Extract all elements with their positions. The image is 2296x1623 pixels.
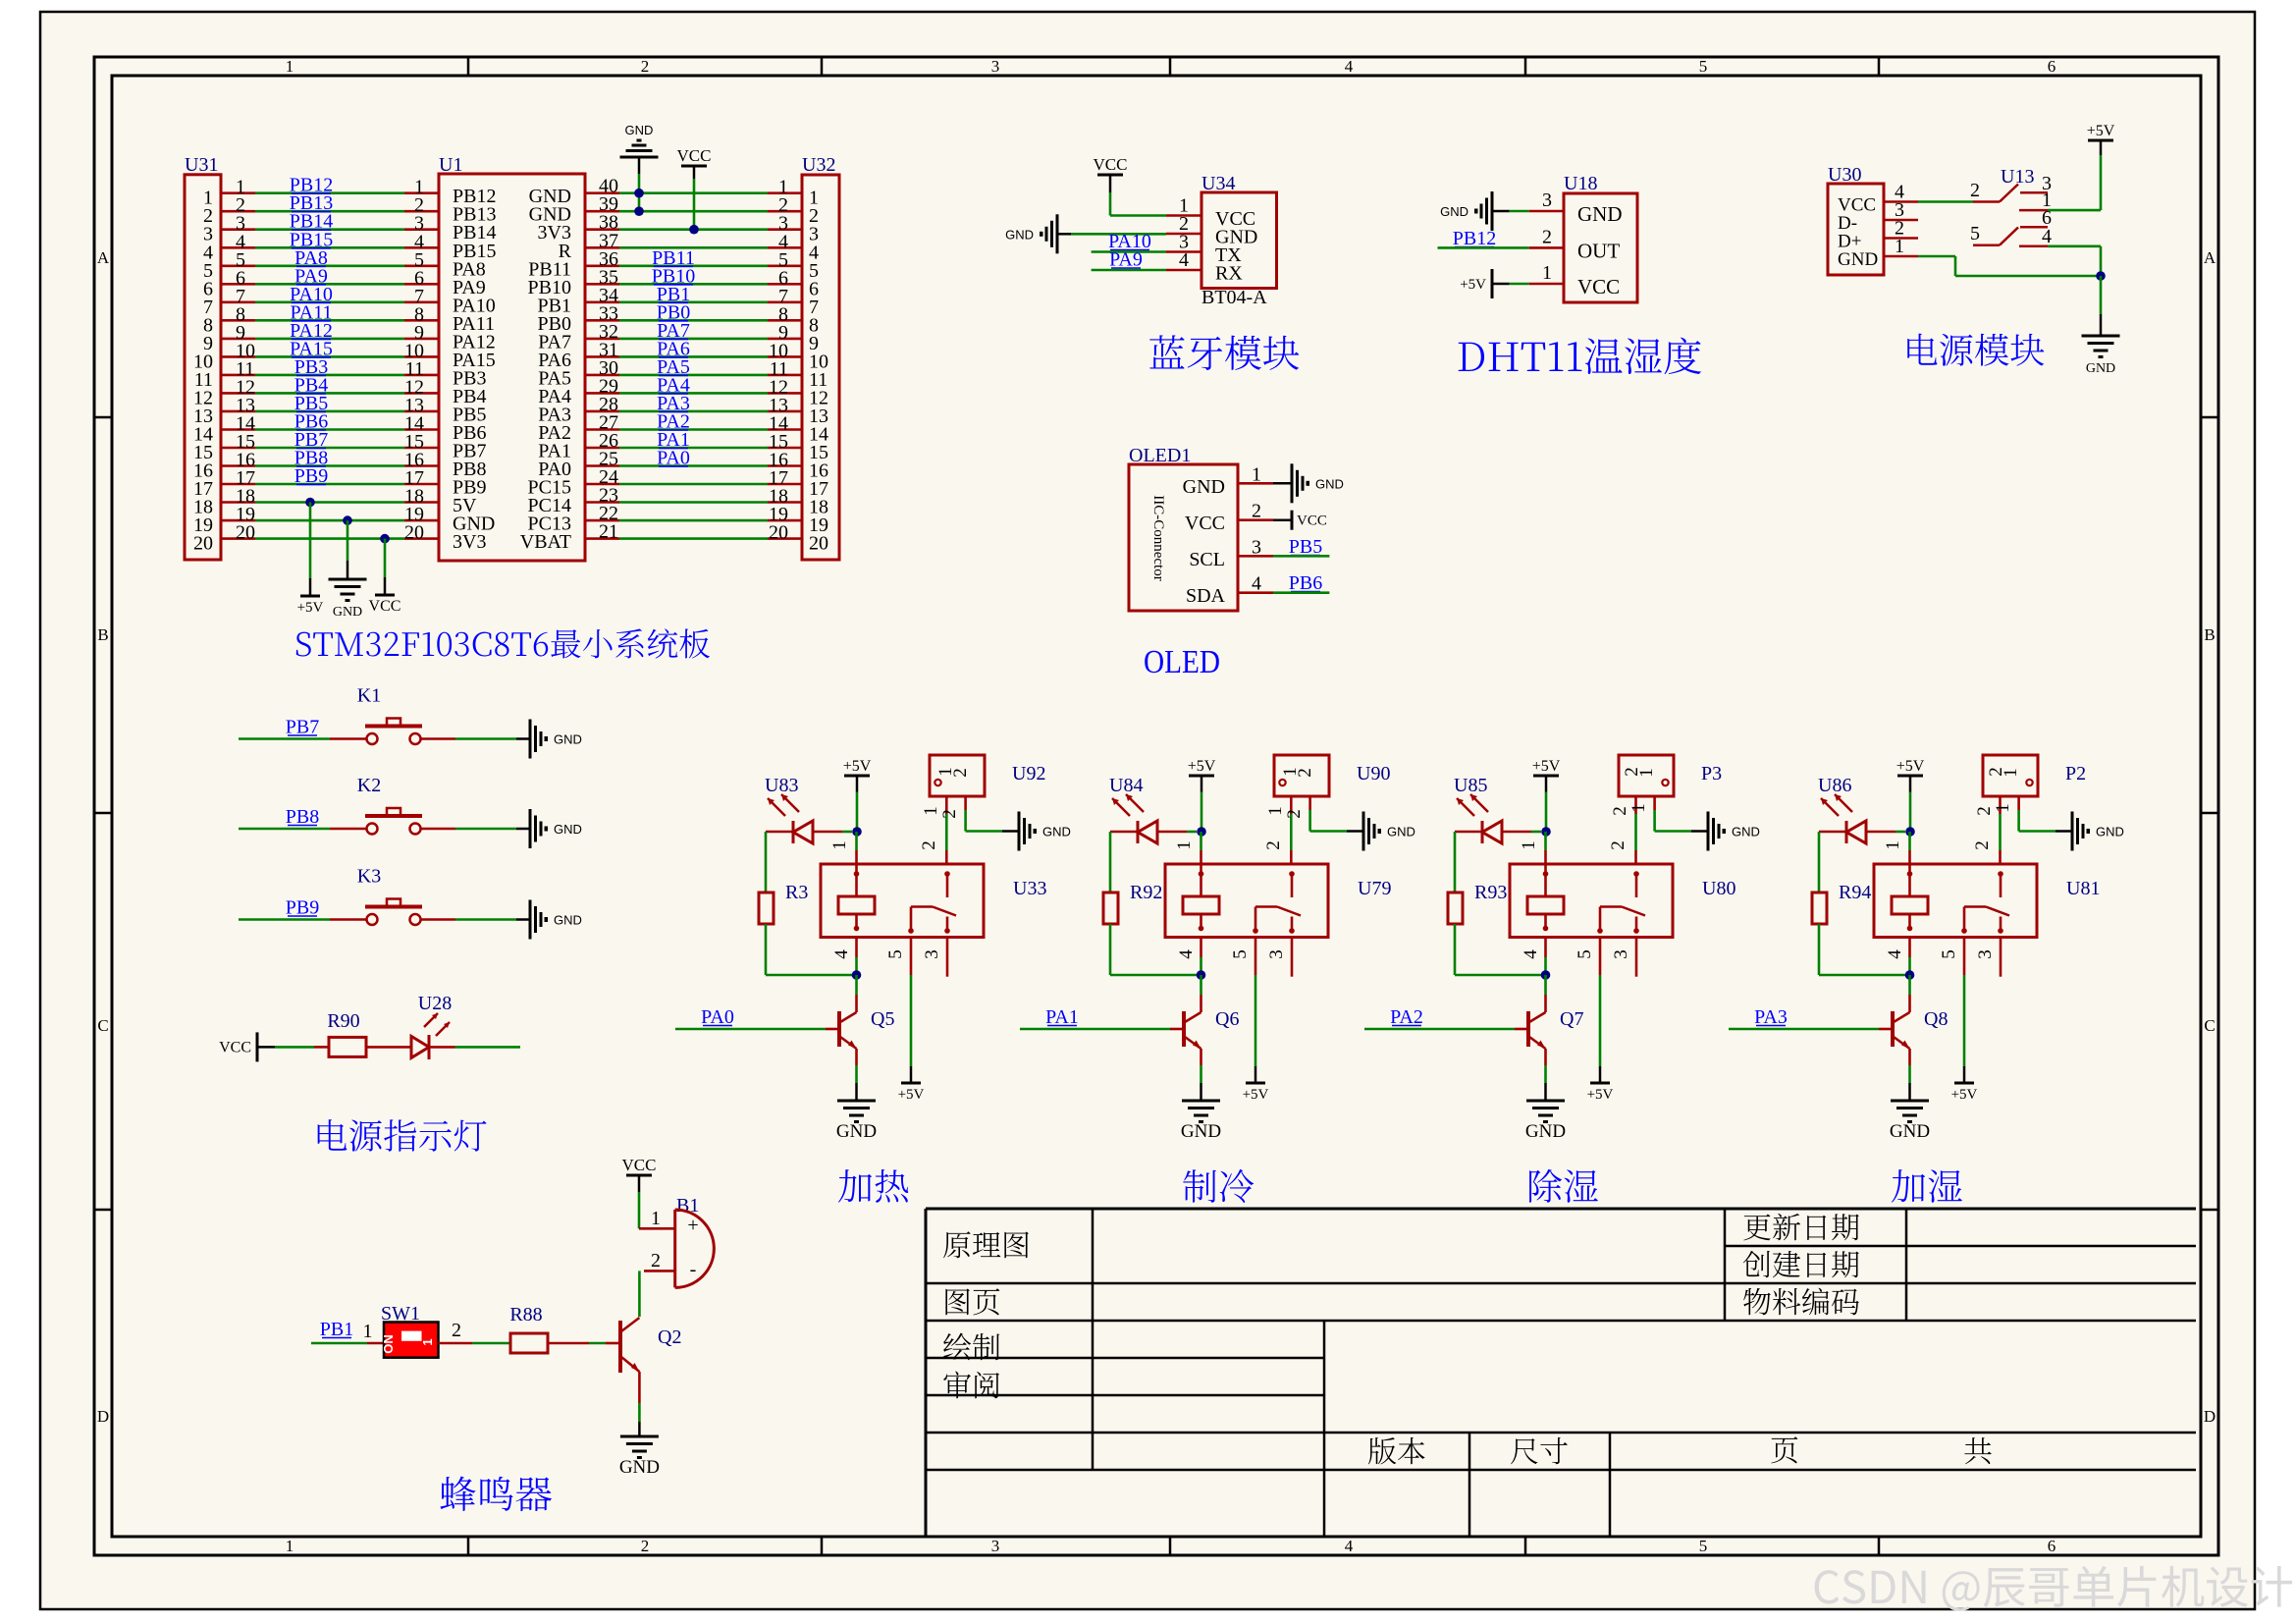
svg-text:VCC: VCC — [1185, 513, 1225, 534]
wire U1.39 to U32.2 — [585, 210, 619, 213]
junction Q6 collector — [1197, 970, 1206, 980]
wire LED to resistor R94 — [1818, 832, 1821, 893]
svg-text:5: 5 — [1575, 949, 1595, 959]
svg-text:GND: GND — [1732, 825, 1760, 839]
power port +5V below relay U81 — [1954, 1082, 1974, 1085]
relay U79 pin2 wire to connector U90 — [1290, 850, 1293, 864]
power port +5V above relay U33 — [844, 775, 870, 778]
svg-text:5: 5 — [1230, 949, 1251, 959]
svg-text:R88: R88 — [509, 1304, 542, 1325]
wire U1.25 to U32.16 net PA0 — [585, 464, 619, 467]
svg-text:K1: K1 — [357, 685, 381, 707]
svg-text:GND: GND — [554, 822, 582, 837]
svg-text:4: 4 — [1885, 949, 1905, 959]
wire U31.10 to U1.10 net PA15 — [221, 355, 255, 358]
svg-text:2: 2 — [1542, 226, 1552, 247]
svg-text:Q7: Q7 — [1560, 1008, 1583, 1030]
svg-text:R3: R3 — [785, 882, 808, 903]
svg-text:3: 3 — [1252, 536, 1261, 558]
wire U1.40 to U32.1 — [585, 191, 619, 194]
svg-text:1: 1 — [1883, 840, 1903, 850]
svg-text:+5V: +5V — [2087, 123, 2115, 139]
svg-text:OUT: OUT — [1577, 239, 1620, 262]
svg-text:U28: U28 — [418, 993, 452, 1014]
wire U1.24 to U32.17 — [585, 483, 619, 486]
svg-text:2: 2 — [1263, 840, 1284, 850]
svg-text:U92: U92 — [1012, 763, 1045, 784]
power port +5V below relay U80 — [1590, 1082, 1610, 1085]
wire PA9 to U34.4 — [1092, 269, 1166, 272]
relay U33 pin4 wire — [855, 938, 858, 958]
svg-text:R93: R93 — [1474, 882, 1507, 903]
svg-text:GND: GND — [836, 1121, 877, 1142]
svg-text:1: 1 — [829, 840, 850, 850]
relay U33 pin2 wire to connector U92 — [945, 850, 948, 864]
svg-text:+5V: +5V — [898, 1087, 925, 1103]
svg-text:4: 4 — [1179, 249, 1189, 271]
power port VCC above U1 — [681, 165, 707, 168]
svg-text:VCC: VCC — [622, 1156, 657, 1174]
svg-text:5: 5 — [1939, 949, 1959, 959]
wire U1.36 to U32.5 net PB11 — [585, 264, 619, 267]
svg-text:+5V: +5V — [843, 758, 872, 775]
wire Q7 emitter to GND — [1544, 1049, 1547, 1065]
relay U81 pin1 wire — [1908, 850, 1911, 864]
svg-text:R90: R90 — [327, 1010, 359, 1032]
svg-text:GND: GND — [1042, 825, 1071, 839]
svg-text:U18: U18 — [1564, 173, 1597, 194]
svg-text:VCC: VCC — [369, 598, 401, 615]
svg-text:U33: U33 — [1013, 878, 1046, 899]
svg-text:B: B — [2204, 625, 2215, 644]
relay U81 pin3 stub — [2000, 938, 2002, 977]
svg-text:GND: GND — [1181, 1121, 1221, 1142]
connector U31 — [185, 175, 221, 560]
wire U1.35 to U32.6 net PB10 — [585, 283, 619, 286]
svg-text:4: 4 — [1521, 949, 1541, 959]
svg-text:U81: U81 — [2066, 878, 2100, 899]
caption 除湿 — [1529, 1169, 1598, 1203]
wire R3 to junction — [765, 924, 768, 975]
svg-text:3: 3 — [991, 1537, 1000, 1555]
svg-text:GND: GND — [1183, 476, 1225, 498]
svg-text:2: 2 — [1974, 806, 1995, 816]
wire U30 GND to junction — [1918, 255, 1955, 258]
relay U79 pin1 wire — [1200, 850, 1202, 864]
svg-text:BT04-A: BT04-A — [1201, 287, 1267, 308]
junction Q7 collector — [1541, 970, 1551, 980]
svg-text:2: 2 — [641, 57, 650, 76]
junction Q5 collector — [852, 970, 862, 980]
power port VCC at indicator — [256, 1032, 259, 1061]
svg-text:U79: U79 — [1358, 878, 1391, 899]
wire U31.7 to U1.7 net PA10 — [221, 300, 255, 303]
wire U1.37 to U32.4 — [585, 246, 619, 249]
wire U31.17 to U1.17 net PB9 — [221, 483, 255, 486]
svg-text:RX: RX — [1215, 263, 1243, 285]
connector U32 — [802, 175, 839, 560]
svg-text:4: 4 — [1176, 949, 1197, 959]
svg-text:A: A — [2204, 248, 2216, 267]
relay U80 pin4 wire — [1544, 938, 1547, 958]
wire U28 output — [429, 1046, 455, 1049]
svg-text:20: 20 — [809, 533, 828, 555]
svg-text:2: 2 — [939, 809, 960, 819]
svg-text:20: 20 — [236, 522, 255, 544]
wire U31.6 to U1.6 net PA9 — [221, 283, 255, 286]
svg-text:U31: U31 — [185, 154, 218, 176]
wire PA10 to U34.3 — [1092, 250, 1166, 253]
power port GND above U1 — [620, 156, 659, 159]
svg-text:1: 1 — [1252, 463, 1261, 485]
wire VCC to R90 — [257, 1046, 275, 1049]
title block labels — [943, 1231, 1029, 1258]
wire PA1 to Q6 base — [1020, 1028, 1170, 1031]
svg-text:5: 5 — [1970, 223, 1980, 244]
relay U79 pin3 stub — [1291, 938, 1294, 977]
svg-text:U84: U84 — [1109, 775, 1143, 796]
svg-text:1: 1 — [363, 1321, 373, 1342]
ground GND at U34 — [1056, 214, 1059, 253]
wire U31.4 to U1.4 net PB15 — [221, 246, 255, 249]
ground GND at K3 — [529, 900, 532, 940]
wire PA3 to Q8 base — [1729, 1028, 1879, 1031]
svg-text:20: 20 — [769, 522, 788, 544]
svg-text:2: 2 — [1608, 840, 1629, 850]
wire U1.22 to U32.19 — [585, 519, 619, 522]
svg-text:4: 4 — [1252, 573, 1261, 595]
svg-text:3V3: 3V3 — [453, 531, 486, 553]
svg-text:1: 1 — [1895, 236, 1904, 257]
wire U31.2 to U1.2 net PB13 — [221, 210, 255, 213]
svg-text:2: 2 — [950, 768, 971, 778]
svg-text:U90: U90 — [1357, 763, 1390, 784]
ground GND at U92 — [1018, 812, 1021, 851]
svg-text:5: 5 — [885, 949, 906, 959]
svg-text:5: 5 — [1699, 1537, 1708, 1555]
ground GND at P3 — [1707, 812, 1710, 851]
relay U80 pin5 wire to +5V — [1599, 938, 1602, 976]
caption power indicator — [318, 1119, 487, 1152]
junction +5V LED U86 — [1905, 827, 1915, 837]
power port +5V below relay U33 — [901, 1082, 921, 1085]
svg-text:2: 2 — [651, 1250, 661, 1271]
relay U33 pin1 wire — [855, 850, 858, 864]
connector P2 pin2 to GND — [2017, 796, 2020, 810]
svg-text:VBAT: VBAT — [520, 531, 571, 553]
wire PB1 to SW1 — [311, 1342, 367, 1345]
wire LED to resistor R92 — [1109, 832, 1112, 893]
power port +5V above relay U80 — [1533, 775, 1559, 778]
svg-text:Q5: Q5 — [871, 1008, 894, 1030]
svg-text:1: 1 — [1265, 806, 1286, 816]
svg-text:1: 1 — [1636, 768, 1657, 778]
svg-text:B1: B1 — [676, 1195, 699, 1217]
connector U90 pin2 to GND — [1308, 796, 1311, 810]
wire U13.4 to GND net — [2048, 245, 2101, 248]
ground GND at OLED1 pin1 — [1273, 482, 1292, 485]
svg-text:1: 1 — [1519, 840, 1539, 850]
svg-text:2: 2 — [1972, 840, 1993, 850]
svg-text:U86: U86 — [1818, 775, 1851, 796]
relay U80 pin1 wire — [1544, 850, 1547, 864]
wire U31.18 to U1.18 — [221, 501, 255, 504]
svg-text:4: 4 — [1345, 1537, 1354, 1555]
wire U1.21 to U32.20 — [585, 537, 619, 540]
power port +5V above relay U81 — [1897, 775, 1923, 778]
wire U31.15 to U1.15 net PB7 — [221, 447, 255, 450]
svg-text:IIC-Connector: IIC-Connector — [1150, 495, 1166, 580]
svg-text:GND: GND — [554, 913, 582, 928]
relay U79 pin4 wire — [1200, 938, 1202, 958]
svg-text:2: 2 — [919, 840, 939, 850]
svg-text:B: B — [97, 625, 108, 644]
svg-text:21: 21 — [599, 521, 618, 543]
relay U81 pin4 wire — [1908, 938, 1911, 958]
svg-text:20: 20 — [404, 522, 424, 544]
svg-text:C: C — [2204, 1016, 2215, 1035]
wire U31.11 to U1.11 net PB3 — [221, 374, 255, 377]
wire U31.8 to U1.8 net PA11 — [221, 319, 255, 322]
ground GND below Q5 — [837, 1100, 876, 1103]
wire R90 to U28 — [366, 1046, 411, 1049]
ground GND below Q8 — [1891, 1100, 1929, 1103]
svg-text:SDA: SDA — [1186, 585, 1226, 607]
wire U31.19 to U1.19 — [221, 519, 255, 522]
svg-text:D: D — [97, 1407, 109, 1426]
svg-text:Q2: Q2 — [658, 1326, 681, 1348]
svg-text:Q6: Q6 — [1215, 1008, 1239, 1030]
svg-text:3: 3 — [991, 57, 1000, 76]
svg-text:2: 2 — [1284, 809, 1305, 819]
svg-text:GND: GND — [2086, 361, 2115, 376]
svg-text:GND: GND — [1838, 249, 1878, 270]
wire Q5 emitter to GND — [855, 1049, 858, 1065]
title block grid — [926, 1208, 2196, 1211]
wire Q8 emitter to GND — [1908, 1049, 1911, 1065]
ground GND below Q2 — [620, 1435, 659, 1438]
svg-text:GND: GND — [2096, 825, 2124, 839]
power port VCC at OLED1 pin2 — [1273, 518, 1292, 521]
connector U92 pin2 to GND — [964, 796, 967, 810]
junction U1 3V3 pin38 — [689, 225, 699, 235]
wire U1.26 to U32.15 net PA1 — [585, 447, 619, 450]
caption 加湿 — [1892, 1169, 1962, 1203]
svg-text:U80: U80 — [1702, 878, 1735, 899]
svg-text:ON: ON — [381, 1334, 396, 1354]
power port +5V at U18 — [1491, 269, 1494, 298]
svg-text:Q8: Q8 — [1924, 1008, 1948, 1030]
svg-text:U1: U1 — [439, 154, 462, 176]
relay U80 pin3 stub — [1635, 938, 1638, 977]
svg-text:4: 4 — [831, 949, 852, 959]
caption bluetooth module — [1149, 335, 1299, 370]
svg-text:2: 2 — [1295, 768, 1315, 778]
caption power module — [1907, 334, 2044, 366]
svg-text:SCL: SCL — [1189, 549, 1225, 570]
power port GND below U31 — [329, 578, 367, 581]
wire U13.1 to +5V — [2048, 209, 2101, 212]
svg-text:2: 2 — [641, 1537, 650, 1555]
svg-text:1: 1 — [921, 806, 941, 816]
svg-text:+5V: +5V — [1532, 758, 1561, 775]
svg-text:4: 4 — [1345, 57, 1354, 76]
svg-text:4: 4 — [2042, 226, 2052, 247]
svg-text:VCC: VCC — [677, 146, 712, 165]
ground GND below Q7 — [1526, 1100, 1565, 1103]
svg-text:+5V: +5V — [1243, 1087, 1269, 1103]
power port VCC above buzzer — [626, 1174, 652, 1177]
svg-text:2: 2 — [452, 1320, 461, 1341]
svg-text:P2: P2 — [2065, 763, 2086, 784]
svg-text:3: 3 — [922, 949, 942, 959]
svg-text:1: 1 — [286, 1537, 294, 1555]
relay U81 pin2 wire to connector P2 — [1999, 850, 2002, 864]
wire U31.5 to U1.5 net PA8 — [221, 264, 255, 267]
svg-text:+: + — [687, 1215, 698, 1236]
wire R94 to junction — [1818, 924, 1821, 975]
wire U1.29 to U32.12 net PA4 — [585, 392, 619, 395]
relay U79 pin5 wire to +5V — [1255, 938, 1257, 976]
svg-text:+5V: +5V — [1460, 277, 1486, 293]
caption 加热 — [838, 1169, 908, 1203]
svg-text:3: 3 — [1266, 949, 1287, 959]
wire U31.12 to U1.12 net PB4 — [221, 392, 255, 395]
wire GND row19 drop — [343, 515, 352, 525]
power port VCC above U34 — [1097, 174, 1123, 177]
wire U31.3 to U1.3 net PB14 — [221, 228, 255, 231]
svg-text:GND: GND — [1387, 825, 1415, 839]
wire PB12 to U18.2 — [1438, 246, 1529, 249]
wire PA0 to Q5 base — [675, 1028, 826, 1031]
junction Q8 collector — [1905, 970, 1915, 980]
connector P3 pin2 to GND — [1653, 796, 1656, 810]
junction GND net power module — [2096, 271, 2106, 281]
wire U31.9 to U1.9 net PA12 — [221, 338, 255, 341]
svg-text:U32: U32 — [802, 154, 835, 176]
junction +5V LED U85 — [1541, 827, 1551, 837]
svg-text:+5V: +5V — [1896, 758, 1925, 775]
svg-text:VCC: VCC — [219, 1039, 251, 1055]
wire U1.33 to U32.8 net PB0 — [585, 319, 619, 322]
grid reference column ticks and labels — [467, 57, 470, 76]
svg-text:VCC: VCC — [1094, 155, 1128, 174]
wire LED to resistor R93 — [1454, 832, 1457, 893]
ground GND at U18 — [1491, 191, 1494, 231]
junction +5V LED U83 — [852, 827, 862, 837]
svg-text:C: C — [97, 1016, 108, 1035]
svg-text:1: 1 — [1629, 803, 1649, 813]
svg-text:OLED: OLED — [1144, 644, 1220, 680]
ground GND at K2 — [529, 809, 532, 848]
svg-text:GND: GND — [1577, 202, 1623, 226]
power port +5V above relay U79 — [1189, 775, 1214, 778]
svg-text:+5V: +5V — [297, 600, 324, 616]
wire U31.13 to U1.13 net PB5 — [221, 410, 255, 413]
svg-text:GND: GND — [333, 605, 362, 620]
watermark CSDN — [1815, 1566, 2293, 1611]
ground GND at P2 — [2071, 812, 2074, 851]
wire U1.28 to U32.13 net PA3 — [585, 410, 619, 413]
svg-text:GND: GND — [1440, 204, 1468, 219]
svg-text:VCC: VCC — [1577, 275, 1620, 298]
wire 5V row18 drop — [305, 498, 315, 508]
wire U1.32 to U32.9 net PA7 — [585, 338, 619, 341]
wire B1 pin2 to Q2 collector — [638, 1271, 641, 1317]
svg-text:D: D — [2204, 1407, 2216, 1426]
svg-text:GND: GND — [619, 1457, 660, 1478]
caption buzzer — [440, 1477, 552, 1512]
svg-text:A: A — [97, 248, 110, 267]
svg-text:U85: U85 — [1454, 775, 1487, 796]
wire U1.34 to U32.7 net PB1 — [585, 300, 619, 303]
power port +5V above U13 — [2088, 139, 2113, 142]
wire Q2 emitter to GND — [638, 1372, 641, 1403]
svg-text:3: 3 — [1975, 949, 1996, 959]
wire LED to resistor R3 — [765, 832, 768, 893]
ground GND at U90 — [1362, 812, 1365, 851]
caption DHT11 temperature humidity — [1459, 338, 1701, 375]
svg-text:2: 2 — [1610, 806, 1630, 816]
wire U1.31 to U32.10 net PA6 — [585, 355, 619, 358]
junction U1 GND pin40 — [634, 189, 644, 198]
wire U30 VCC to U13.2 — [1918, 200, 1973, 203]
wire U31.20 to U1.20 — [221, 537, 255, 540]
svg-text:1: 1 — [1174, 840, 1195, 850]
wire R92 to junction — [1109, 924, 1112, 975]
wire U31.1 to U1.1 net PB12 — [221, 191, 255, 194]
wire U1.30 to U32.11 net PA5 — [585, 374, 619, 377]
svg-text:1: 1 — [1993, 803, 2013, 813]
svg-text:1: 1 — [420, 1338, 435, 1345]
wire VCC row20 drop — [380, 534, 390, 544]
wire R88 to Q2 base — [548, 1342, 589, 1345]
svg-text:1: 1 — [286, 57, 294, 76]
svg-text:-: - — [690, 1259, 697, 1280]
wire U1.23 to U32.18 — [585, 501, 619, 504]
svg-text:K3: K3 — [357, 866, 381, 888]
svg-text:2: 2 — [1970, 180, 1980, 201]
ground GND at K1 — [529, 720, 532, 759]
svg-text:K2: K2 — [357, 775, 381, 796]
relay U33 pin5 wire to +5V — [910, 938, 913, 976]
svg-text:+5V: +5V — [1951, 1087, 1978, 1103]
caption 制冷 — [1183, 1169, 1254, 1203]
svg-text:GND: GND — [1525, 1121, 1566, 1142]
svg-text:2: 2 — [1252, 501, 1261, 522]
wire SDA to PB6 — [1273, 591, 1329, 594]
svg-text:3: 3 — [1611, 949, 1631, 959]
ground GND below Q6 — [1182, 1100, 1220, 1103]
relay U80 pin2 wire to connector P3 — [1634, 850, 1637, 864]
wire U31.14 to U1.14 net PB6 — [221, 428, 255, 431]
wire Q6 emitter to GND — [1200, 1049, 1202, 1065]
junction U1 GND pin39 — [634, 206, 644, 216]
svg-text:1: 1 — [1542, 262, 1552, 284]
power port +5V below U31 — [300, 595, 320, 598]
svg-text:+5V: +5V — [1188, 758, 1216, 775]
wire R93 to junction — [1454, 924, 1457, 975]
wire SCL to PB5 — [1273, 555, 1329, 558]
power port +5V below relay U79 — [1246, 1082, 1265, 1085]
svg-text:GND: GND — [1890, 1121, 1930, 1142]
svg-text:3: 3 — [1542, 189, 1552, 211]
MCU U1 STM32F103C8T6 — [439, 174, 585, 561]
wire U1.38 to U32.3 — [585, 228, 619, 231]
ground GND below power module — [2100, 276, 2103, 314]
svg-text:VCC: VCC — [1297, 514, 1327, 529]
wire U31.16 to U1.16 net PB8 — [221, 464, 255, 467]
